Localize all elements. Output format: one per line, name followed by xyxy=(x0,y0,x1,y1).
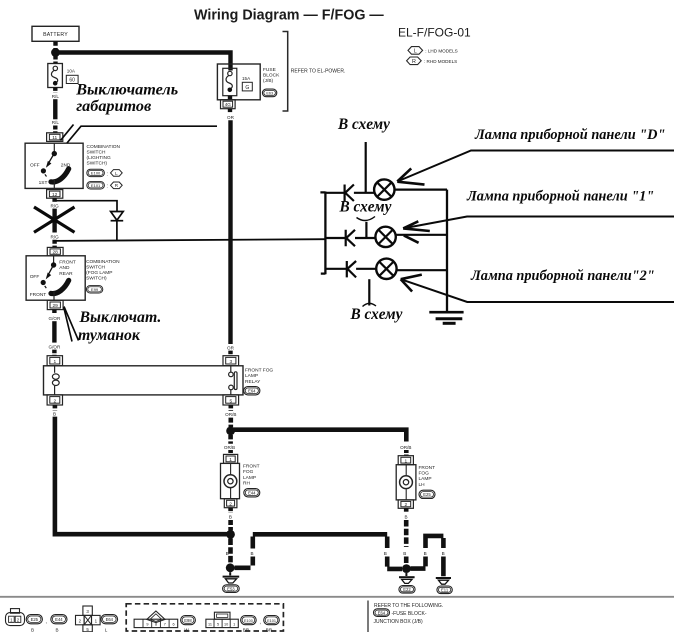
svg-text:E101: E101 xyxy=(267,619,276,623)
fuse F2 15A inside fuse block xyxy=(223,68,237,95)
fog switch lever xyxy=(48,265,54,276)
wire R/G to connector 28 xyxy=(52,240,56,248)
svg-text:3: 3 xyxy=(86,609,89,614)
connector 29 xyxy=(47,300,63,309)
wire to LH lamp connector 1 xyxy=(404,450,409,456)
relay K1 box (front fog lamp relay) xyxy=(44,366,244,395)
RH lamp connector 1 xyxy=(224,454,238,463)
svg-text:R/G: R/G xyxy=(51,235,60,240)
wire relay 5 to OR/B xyxy=(229,405,234,411)
callout arrow slash xyxy=(61,125,74,141)
connector face icon E98 xyxy=(134,611,178,628)
svg-text:B: B xyxy=(403,551,406,556)
svg-text:B: B xyxy=(384,551,387,556)
svg-text:BLOCK: BLOCK xyxy=(263,73,280,79)
svg-text:L: L xyxy=(105,628,108,632)
svg-text:туманок: туманок xyxy=(78,327,141,344)
wire G/OR down xyxy=(52,321,56,342)
svg-text:2ND: 2ND xyxy=(61,163,71,169)
svg-text:29: 29 xyxy=(53,303,59,309)
svg-text:2: 2 xyxy=(229,501,232,507)
svg-text:Выключат.: Выключат. xyxy=(79,309,162,326)
arrowhead 1 xyxy=(403,221,430,231)
lighting switch lever xyxy=(48,153,54,164)
svg-text:E64: E64 xyxy=(106,617,114,622)
ground E53 xyxy=(223,572,240,583)
wire RH lamp 2 to B xyxy=(228,508,233,513)
refer block divider xyxy=(367,601,369,632)
svg-text:L: L xyxy=(414,49,417,55)
fog switch contact dot xyxy=(53,256,55,263)
wire lamp 3 to right bus xyxy=(397,269,447,271)
svg-text:FRONT: FRONT xyxy=(30,292,47,298)
wire R/G to R/G (crossed out) xyxy=(52,209,56,233)
svg-text:SWITCH): SWITCH) xyxy=(87,161,108,167)
svg-text:габаритов: габаритов xyxy=(76,97,151,115)
X mark annotation (crossed-out wire) xyxy=(34,207,75,232)
ground (hand-drawn) xyxy=(429,312,463,323)
svg-text:2: 2 xyxy=(404,502,407,508)
svg-text:-FUSE BLOCK-: -FUSE BLOCK- xyxy=(392,611,427,617)
wire dot1 to dot2 xyxy=(228,539,233,565)
svg-text:B: B xyxy=(250,551,253,556)
svg-text:RH: RH xyxy=(243,480,250,486)
svg-text:W: W xyxy=(184,628,189,632)
svg-text:B: B xyxy=(226,551,229,556)
relay K1 connector 1 xyxy=(47,356,62,366)
svg-text:B: B xyxy=(31,628,34,632)
svg-text:EL-F/FOG-01: EL-F/FOG-01 xyxy=(398,26,471,40)
svg-text:BR: BR xyxy=(243,628,250,632)
lighting switch arc xyxy=(51,169,69,182)
svg-text:1: 1 xyxy=(233,623,235,627)
node dot3 xyxy=(402,564,411,573)
curl under middle label xyxy=(357,217,376,221)
arrowhead 2 xyxy=(401,275,422,292)
curl above bottom label xyxy=(363,303,377,306)
wire row 1 left xyxy=(325,192,344,194)
svg-text:B: B xyxy=(229,515,232,520)
wire lamp 1 to right bus xyxy=(394,189,447,191)
svg-text:OR/B: OR/B xyxy=(225,412,236,417)
node battery junction xyxy=(51,48,60,57)
wire branch right of dot1 xyxy=(235,534,403,569)
svg-text:E99: E99 xyxy=(91,287,99,292)
svg-text:,: , xyxy=(260,620,261,626)
svg-text:: RHD MODELS: : RHD MODELS xyxy=(424,59,457,64)
svg-text:REFER TO THE FOLLOWING.: REFER TO THE FOLLOWING. xyxy=(374,603,443,609)
annotation arrow to connector 29 xyxy=(64,307,79,342)
fog lamp RH body xyxy=(221,463,240,498)
battery B1 xyxy=(32,26,79,41)
svg-text::: : xyxy=(107,171,108,177)
svg-text:B: B xyxy=(404,515,407,520)
wire B to junction dot1 xyxy=(228,520,233,531)
svg-text:1: 1 xyxy=(229,457,232,463)
svg-text:E64: E64 xyxy=(248,389,256,394)
svg-text:G: G xyxy=(245,85,249,91)
wire R/L to R/L xyxy=(53,99,57,119)
svg-text:Лампа приборной панели"2": Лампа приборной панели"2" xyxy=(470,268,655,284)
wire OR down to relay connector 3 xyxy=(228,120,232,344)
ground E22 xyxy=(399,573,415,583)
tag E98 xyxy=(181,616,196,625)
svg-text:FRONT: FRONT xyxy=(243,464,260,470)
svg-text:E11: E11 xyxy=(441,588,449,593)
wire 29 to G/OR xyxy=(52,310,56,315)
leader line 2 xyxy=(401,279,674,302)
svg-text:10A: 10A xyxy=(67,69,76,74)
right bus vertical xyxy=(446,190,448,312)
svg-text:B: B xyxy=(424,551,427,556)
label FUSE BLOCK (J/B) xyxy=(263,67,280,84)
svg-text:11: 11 xyxy=(208,623,212,627)
svg-text:COMBINATION: COMBINATION xyxy=(86,259,120,265)
svg-text:Лампа приборной панели "D": Лампа приборной панели "D" xyxy=(474,127,665,143)
separator line xyxy=(0,596,674,598)
svg-text:OR: OR xyxy=(227,115,235,120)
label FRONT FOG LAMP LH xyxy=(419,465,436,488)
relay coil xyxy=(52,366,59,395)
fuse block J/B box xyxy=(217,64,260,100)
svg-text:B: B xyxy=(442,551,445,556)
svg-text:LH: LH xyxy=(419,482,426,488)
svg-text:R: R xyxy=(115,183,119,188)
bracket REFER TO EL-POWER xyxy=(283,32,288,112)
svg-text:OR/B: OR/B xyxy=(224,445,235,450)
tag E22 xyxy=(399,586,415,594)
dashed group box xyxy=(126,604,283,631)
tag E53 xyxy=(223,585,240,593)
tag E99 xyxy=(86,286,102,293)
fog lamp LH body xyxy=(396,465,416,500)
svg-text:BR: BR xyxy=(266,628,273,632)
svg-text:10: 10 xyxy=(224,623,228,627)
svg-text:2: 2 xyxy=(79,619,82,624)
svg-text:E25: E25 xyxy=(31,617,39,622)
svg-text:E100: E100 xyxy=(244,619,253,623)
svg-text:9: 9 xyxy=(146,623,148,627)
wire junction down to fuse F1 xyxy=(53,55,57,64)
svg-text:Wiring Diagram — F/FOG —: Wiring Diagram — F/FOG — xyxy=(194,8,384,24)
node junction OR/B xyxy=(226,427,235,436)
label FRONT AND REAR xyxy=(59,260,76,277)
diode D3 (row 2) xyxy=(346,230,355,246)
svg-text:28: 28 xyxy=(53,250,59,256)
label FRONT FOG LAMP RH xyxy=(243,464,260,487)
connector face icon E25/E44 xyxy=(6,609,25,626)
label FRONT FOG LAMP RELAY xyxy=(245,368,273,385)
lighting switch contact dot xyxy=(53,143,55,151)
svg-text:R/L: R/L xyxy=(52,94,60,99)
svg-text:1ST: 1ST xyxy=(39,180,48,186)
wire relay 2 to B xyxy=(53,405,58,410)
svg-text:E53: E53 xyxy=(227,586,235,591)
svg-text:FOG: FOG xyxy=(243,469,254,475)
svg-text:: LHD MODELS: : LHD MODELS xyxy=(425,49,457,54)
svg-text:OFF: OFF xyxy=(30,163,40,169)
wire В схему top down to row 1 xyxy=(365,142,367,193)
wire row 3 left xyxy=(325,268,346,270)
wire stub lamp 3 down xyxy=(368,279,370,305)
svg-text:1: 1 xyxy=(10,618,13,623)
connector 4G xyxy=(221,96,236,109)
wire R/L to connector 11 xyxy=(53,126,57,134)
ground E11 xyxy=(436,578,451,584)
svg-text:SWITCH: SWITCH xyxy=(86,264,105,270)
svg-text:6: 6 xyxy=(172,623,174,627)
svg-text:Выключатель: Выключатель xyxy=(75,80,178,98)
svg-text:1: 1 xyxy=(95,619,98,624)
diode D1 xyxy=(111,212,124,241)
arrowhead D xyxy=(397,168,424,184)
svg-text:OR: OR xyxy=(227,345,235,350)
tag E25 (strip) xyxy=(26,615,42,624)
svg-text:FOG: FOG xyxy=(419,471,430,477)
wire battery to junction xyxy=(53,41,57,49)
wire to diode D1 (anode) xyxy=(55,201,117,212)
lamp L1 xyxy=(374,179,394,199)
wire connector 12 to R/G xyxy=(52,198,56,203)
leader line 1 xyxy=(403,217,674,229)
svg-text:E63: E63 xyxy=(266,92,273,96)
svg-text:REAR: REAR xyxy=(59,271,73,277)
svg-text:5: 5 xyxy=(86,627,89,632)
svg-text:E44: E44 xyxy=(248,491,256,496)
svg-text:BATTERY: BATTERY xyxy=(43,32,68,38)
svg-text:E25: E25 xyxy=(423,492,431,497)
wire fuse to R/L xyxy=(53,88,57,94)
relay K1 connector 2 xyxy=(47,395,62,405)
svg-text:E101: E101 xyxy=(91,183,101,188)
relay K1 connector 5 xyxy=(223,395,239,405)
relay K1 connector 3 xyxy=(223,356,239,366)
wire lamp 2 to right bus xyxy=(396,234,447,236)
svg-text:В схему: В схему xyxy=(337,116,390,133)
wire junction to fuse block (top horizontal) xyxy=(56,53,231,71)
svg-text:15A: 15A xyxy=(242,76,251,81)
connector face icon E64 (cross) xyxy=(76,606,101,632)
combination switch U1 (lighting switch) box xyxy=(25,143,83,188)
wire 4G to OR xyxy=(228,109,232,114)
svg-text:2: 2 xyxy=(53,398,56,404)
svg-text:LAMP: LAMP xyxy=(243,475,256,481)
legend L tag xyxy=(408,47,458,55)
wire LH B down to dot3 xyxy=(404,520,409,547)
wire junction to LH lamp (thick horizontal) xyxy=(231,427,407,441)
svg-text:3: 3 xyxy=(229,359,232,365)
callout line to connector 11 xyxy=(67,126,217,143)
tag E11 xyxy=(437,586,452,594)
svg-text:E100: E100 xyxy=(91,171,101,176)
combination switch U2 (fog lamp switch) box xyxy=(26,256,85,300)
svg-text:RELAY: RELAY xyxy=(245,379,261,385)
wire G/OR to relay connector 1 xyxy=(52,350,56,356)
wire OR/B to junction xyxy=(229,418,234,427)
wire junction down RH xyxy=(228,435,233,444)
svg-text:,: , xyxy=(46,619,47,625)
svg-text:B: B xyxy=(53,411,56,416)
svg-text:COMBINATION: COMBINATION xyxy=(87,144,121,150)
node dot2 xyxy=(226,563,235,572)
svg-text:L: L xyxy=(115,171,118,176)
svg-text:FRONT: FRONT xyxy=(419,465,436,471)
tag E63 oval xyxy=(262,89,276,97)
wire dot3 to E11 ground (U shape) xyxy=(411,536,444,576)
svg-text:R/G: R/G xyxy=(51,203,60,208)
svg-text::: : xyxy=(107,184,108,190)
svg-text:60: 60 xyxy=(69,78,75,84)
svg-text:AND: AND xyxy=(59,265,70,271)
label fuse letter G xyxy=(242,82,252,91)
wire LH lamp 2 to B xyxy=(404,508,409,513)
wire OR to relay xyxy=(228,351,232,356)
diode D4 (row 3) xyxy=(347,261,356,277)
tag E25 xyxy=(419,490,435,498)
diode D2 (row 1) xyxy=(345,185,354,202)
svg-text:4G: 4G xyxy=(225,102,232,107)
tag E64 (strip) xyxy=(101,615,118,624)
svg-text:11: 11 xyxy=(52,135,57,141)
tag E101 xyxy=(264,616,280,625)
svg-text:SWITCH: SWITCH xyxy=(87,149,106,155)
fuse F1 10A xyxy=(48,64,63,88)
svg-text:LAMP: LAMP xyxy=(419,476,432,482)
svg-text:E98: E98 xyxy=(184,618,192,623)
svg-text:E44: E44 xyxy=(55,617,63,622)
wire stub to lamp 2 xyxy=(365,222,367,238)
leader line D xyxy=(397,151,674,182)
svg-text:FRONT: FRONT xyxy=(59,260,76,266)
svg-text:В схему: В схему xyxy=(350,306,403,323)
lamp L3 xyxy=(376,259,396,279)
svg-text:G/OR: G/OR xyxy=(49,316,61,321)
svg-text:E22: E22 xyxy=(403,587,411,592)
tag E101 : R xyxy=(87,182,122,190)
connector 11 xyxy=(47,133,63,142)
tag E64 (refer) xyxy=(374,609,390,617)
label COMBINATION SWITCH (FOG LAMP SWITCH) xyxy=(86,259,120,282)
connector 28 xyxy=(47,247,63,255)
svg-text:2: 2 xyxy=(17,618,20,623)
connector 12 xyxy=(47,190,63,199)
svg-text:8: 8 xyxy=(155,623,157,627)
node bus left (hand-drawn) xyxy=(320,192,325,275)
svg-text:7: 7 xyxy=(164,623,166,627)
connector face icon E100/E101 xyxy=(206,612,238,627)
svg-text:B: B xyxy=(55,628,58,632)
svg-text:5: 5 xyxy=(217,623,219,627)
svg-text:SWITCH): SWITCH) xyxy=(86,276,107,282)
svg-text:LAMP: LAMP xyxy=(245,373,258,379)
svg-text:FUSE: FUSE xyxy=(263,67,276,73)
svg-text:OFF: OFF xyxy=(30,274,40,280)
LH lamp connector 2 xyxy=(398,500,413,508)
LH lamp connector 1 xyxy=(398,456,413,465)
wire row 2 left xyxy=(325,237,345,239)
wire B left rail down and right xyxy=(53,417,228,535)
wire to RH lamp connector 1 xyxy=(228,450,233,454)
svg-text:FRONT FOG: FRONT FOG xyxy=(245,368,273,374)
svg-text:OR/B: OR/B xyxy=(400,445,411,450)
svg-text:R: R xyxy=(412,59,416,65)
legend R tag xyxy=(407,57,458,65)
tag E44 xyxy=(244,489,260,497)
extra arrow stroke (middle lamp) xyxy=(404,235,419,242)
wire diode to lamp 3 xyxy=(356,268,376,270)
RH lamp connector 2 xyxy=(224,499,237,508)
svg-text:E64: E64 xyxy=(378,610,386,615)
svg-text:R/L: R/L xyxy=(52,120,60,125)
svg-text:1: 1 xyxy=(404,458,407,464)
node dot1 xyxy=(226,530,235,539)
svg-text:REFER TO EL-POWER.: REFER TO EL-POWER. xyxy=(291,69,346,75)
label COMBINATION SWITCH (LIGHTING SWITCH) xyxy=(87,144,121,167)
tag E64 xyxy=(244,387,260,395)
tag E100 : L xyxy=(87,169,122,177)
wire diode to lamp 1 xyxy=(354,192,375,194)
label fuse number 60 xyxy=(66,75,78,83)
svg-text:JUNCTION BOX (J/B): JUNCTION BOX (J/B) xyxy=(374,619,424,625)
fog switch arc xyxy=(51,280,69,293)
relay contact xyxy=(229,366,237,395)
wire diode to lamp 2 xyxy=(355,237,376,239)
svg-text:В схему: В схему xyxy=(339,199,392,216)
lamp L2 xyxy=(375,227,395,247)
svg-text:1: 1 xyxy=(53,359,56,365)
svg-text:(FOG LAMP: (FOG LAMP xyxy=(86,270,112,276)
tag E100 xyxy=(241,616,257,625)
svg-text:5: 5 xyxy=(229,398,232,404)
tag E44 (strip) xyxy=(51,615,67,624)
svg-text:Лампа приборной панели "1": Лампа приборной панели "1" xyxy=(466,188,654,204)
svg-text:(J/B): (J/B) xyxy=(263,78,274,84)
wire feed to lamp assembly xyxy=(54,239,325,241)
svg-text:G/OR: G/OR xyxy=(49,344,61,349)
svg-text:12: 12 xyxy=(52,192,58,198)
svg-text:(LIGHTING: (LIGHTING xyxy=(87,155,112,161)
